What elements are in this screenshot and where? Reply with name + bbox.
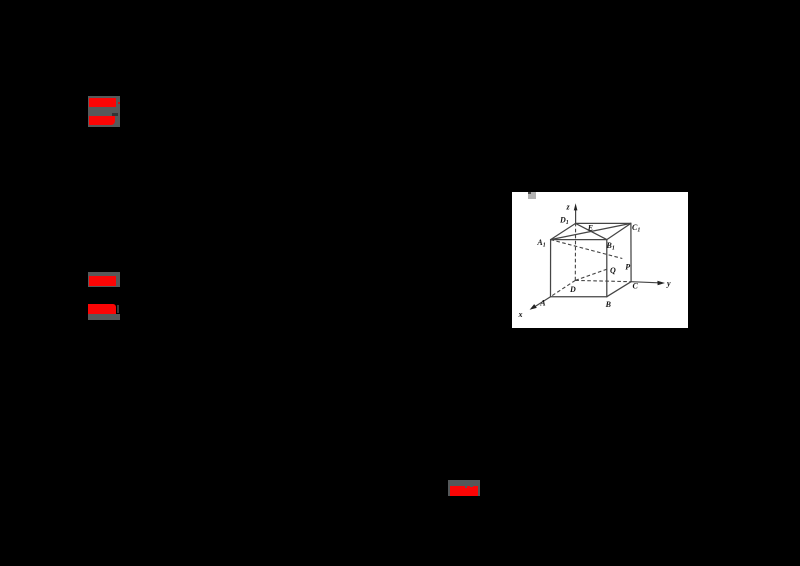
svg-text:D: D [569, 285, 576, 294]
z axis arrowhead [573, 203, 577, 210]
redaction mark 2 lower red bar [88, 304, 116, 314]
figure panel gray corner artifact [528, 192, 535, 198]
redaction mark 1 red dot [118, 102, 120, 104]
edge A1B1 [550, 238, 606, 240]
edge C1D1 [575, 222, 630, 224]
dashed segment D to Q [575, 268, 608, 280]
redaction mark 1 dark notch [112, 113, 118, 116]
z axis line [574, 209, 576, 223]
svg-text:B1: B1 [605, 241, 614, 252]
x axis line [533, 296, 550, 307]
redaction mark 2 upper gray backing [88, 272, 120, 287]
hidden edge DD1 dashed [574, 223, 576, 280]
dashed segment A1 to P [550, 239, 622, 258]
redaction mark 2 lower gray strip [88, 314, 120, 320]
figure panel artifact dark corner [528, 192, 531, 194]
svg-text:A: A [539, 298, 545, 307]
edge D1A1 [550, 223, 575, 239]
edge AA1 [549, 239, 551, 296]
redaction mark 2 upper red bar [89, 276, 117, 286]
redaction mark 1 red bar bottom [89, 116, 115, 125]
svg-text:C: C [632, 281, 638, 290]
hidden edge DA dashed [550, 280, 575, 296]
hidden edge DC dashed [575, 280, 631, 281]
svg-text:Q: Q [610, 266, 616, 275]
figure panel white background [512, 192, 689, 328]
svg-text:B: B [604, 300, 611, 309]
svg-text:D1: D1 [559, 215, 569, 226]
redaction mark 1 gray backing [88, 96, 120, 127]
svg-text:z: z [565, 202, 570, 211]
svg-text:C1: C1 [632, 223, 640, 234]
redaction mark 3 red bar [450, 486, 478, 496]
edge AB [550, 295, 606, 297]
redaction mark 2 right speck [117, 305, 120, 313]
redaction mark 1 red bar top [89, 98, 116, 107]
svg-text:y: y [666, 279, 671, 288]
svg-text:E: E [586, 223, 592, 232]
y axis arrowhead [657, 281, 665, 285]
svg-text:A1: A1 [536, 238, 545, 249]
svg-text:P: P [625, 262, 630, 271]
edge BC [606, 281, 630, 296]
x axis arrowhead [529, 304, 536, 310]
svg-text:x: x [517, 310, 522, 319]
edge B1C1 [606, 223, 630, 239]
y axis line [631, 281, 658, 282]
cube figure svg [512, 192, 689, 328]
diagonal D1B1 [575, 223, 606, 239]
redaction mark 3 notch b [470, 486, 472, 488]
redaction mark 3 gray backing [448, 480, 480, 496]
diagonal A1C1 [550, 223, 630, 239]
redaction mark 3 notch a [465, 486, 468, 488]
edge BB1 [605, 239, 607, 296]
edge CC1 [630, 223, 632, 281]
